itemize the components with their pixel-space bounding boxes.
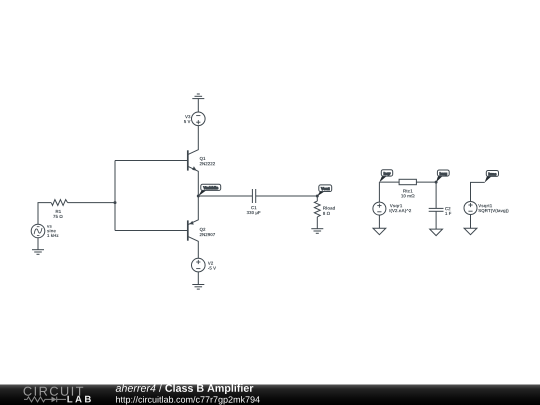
ground (V2) (192, 285, 204, 290)
Vsqrt1 value label (478, 204, 508, 213)
node junction Iavg (435, 181, 438, 184)
logo zigzag and diode (24, 397, 66, 403)
footer title text (116, 384, 156, 392)
capacitor C2 (429, 182, 444, 229)
wire to Q1 base (115, 160, 188, 162)
logo CIRCUIT text (24, 387, 84, 396)
voltage source Vsqr1 (373, 182, 386, 215)
wire vs top to R1 (38, 203, 51, 225)
C2 value label (445, 207, 451, 215)
footer url text (116, 396, 260, 404)
ground (Vsqr1, triangle) (373, 228, 386, 235)
node flag Vout (317, 185, 331, 196)
V2 value label (208, 262, 216, 270)
voltage source V2 (192, 258, 206, 272)
node junction Vmiddle (197, 195, 200, 198)
node flag Isqr (379, 170, 392, 183)
Rtc1 value label (401, 189, 414, 197)
wire to Q2 base (115, 230, 188, 232)
wire V3 top to ground (197, 99, 199, 112)
Q2 name label (200, 228, 215, 236)
V3 value label (184, 115, 191, 123)
node flag Iavg (436, 170, 449, 182)
resistor R1 (51, 200, 67, 206)
capacitor C1 (252, 189, 255, 203)
wire Irms node to Vsqrt1 (471, 182, 485, 201)
node junction Vout (316, 195, 319, 198)
voltage source Vsqrt1 (464, 202, 477, 215)
voltage source vs (sine) (31, 224, 45, 238)
R1 value label (53, 210, 62, 218)
node flag Irms (485, 171, 499, 183)
wire Vsqr1 to ground (378, 215, 380, 228)
wire Isqr node to Rtc1 (379, 181, 399, 183)
ground (Rload) (311, 229, 323, 234)
footer bar (0, 385, 540, 405)
Vsqr1 value label (390, 204, 412, 213)
wire vs bottom to ground (37, 238, 39, 250)
Q1 name label (200, 157, 215, 165)
ground (vs) (32, 250, 44, 255)
transistor Q2 (188, 196, 199, 258)
Rload value label (323, 206, 335, 215)
C1 value label (247, 206, 261, 215)
wire Rtc1 to Iavg node (416, 181, 436, 183)
wire base bus vertical (114, 161, 116, 231)
resistor Rload (314, 196, 320, 229)
wire Vsqrt1 to ground (470, 215, 472, 229)
ground (V3, pointing up) (192, 94, 204, 99)
node junction at base bus (114, 201, 117, 204)
wire V2 bottom to ground (197, 272, 199, 285)
node flag Vmiddle (198, 184, 221, 196)
vs value label (47, 225, 59, 237)
ground (Vsqrt1, triangle) (464, 228, 477, 235)
logo LAB text (67, 396, 90, 403)
transistor Q1 (188, 126, 199, 196)
wire Vmiddle to C1 (198, 195, 252, 197)
resistor Rtc1 (box) (399, 179, 416, 184)
wire C1 to Vout (256, 195, 318, 197)
ground (C2, triangle) (430, 229, 443, 236)
voltage source V3 (192, 112, 206, 126)
wire R1 to base bus (68, 202, 115, 204)
